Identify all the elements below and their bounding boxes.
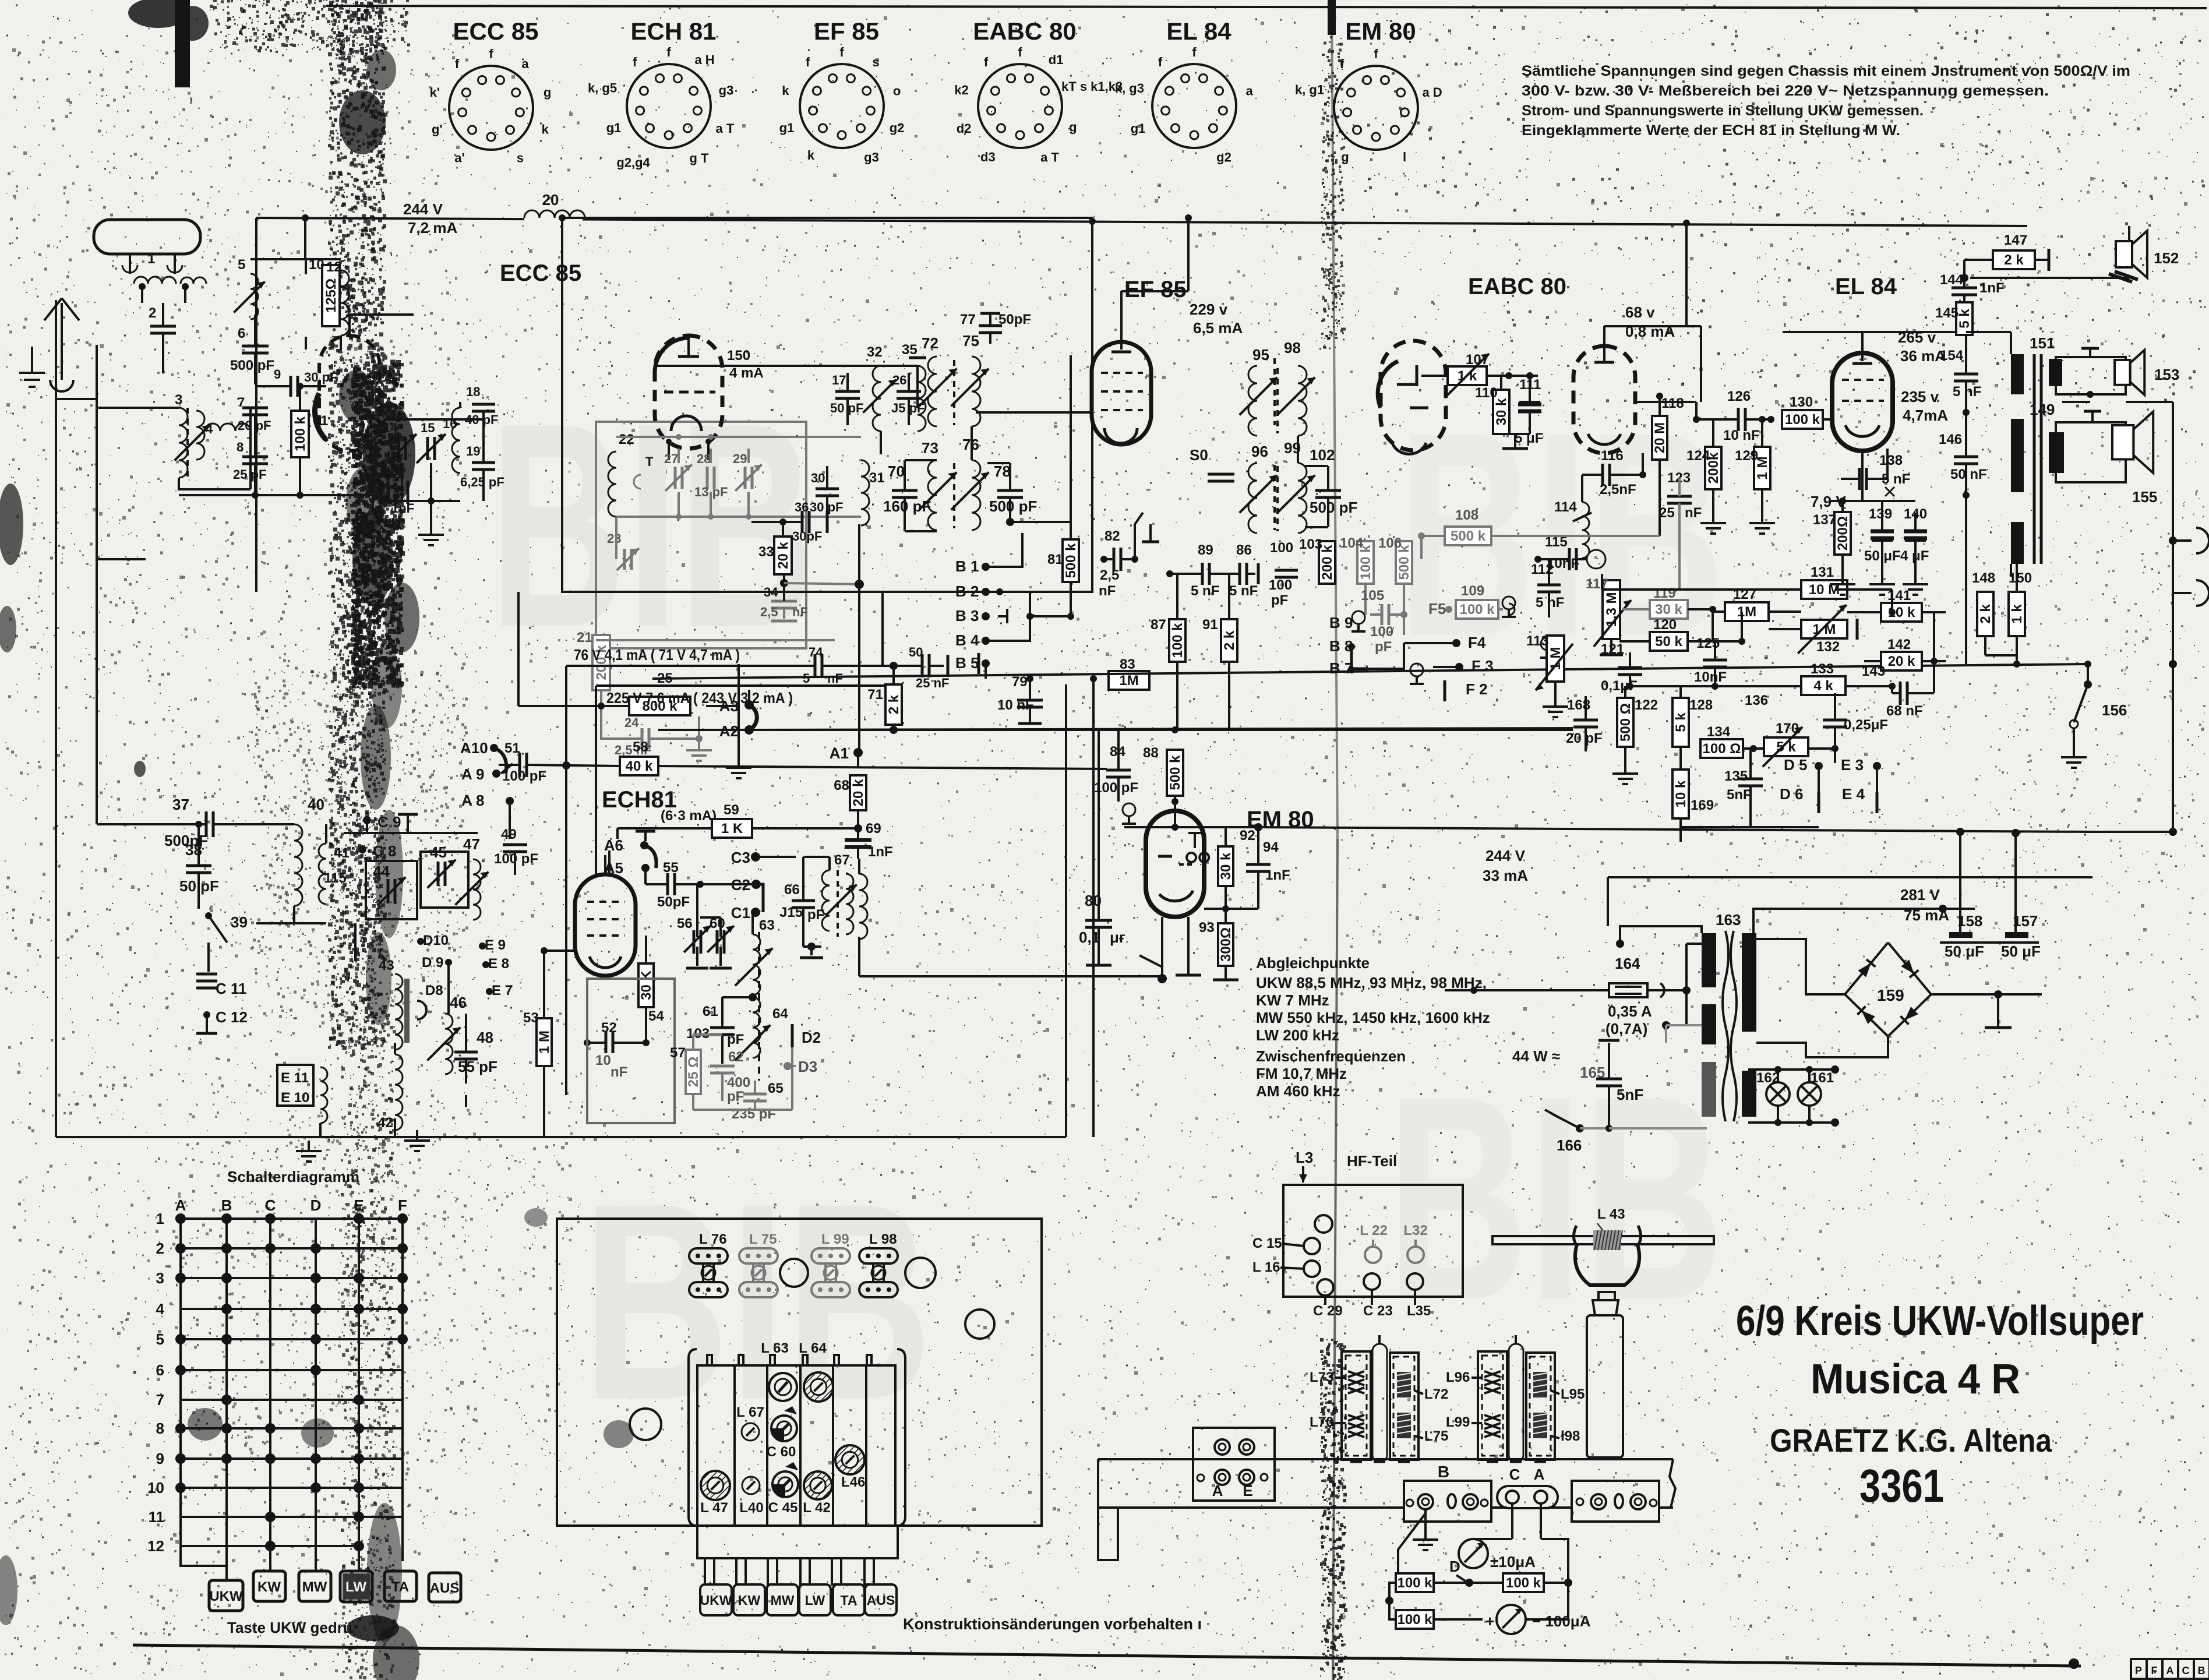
- svg-text:g: g: [1341, 150, 1349, 164]
- svg-text:BIB: BIB: [1386, 1035, 1724, 1361]
- capacitor 18 40pF: [472, 403, 495, 406]
- svg-text:37: 37: [172, 796, 189, 813]
- svg-text:f: f: [1018, 45, 1022, 59]
- svg-text:E: E: [1243, 1482, 1252, 1499]
- svg-text:169: 169: [1691, 797, 1714, 813]
- svg-text:o: o: [893, 84, 901, 98]
- trimmer C60: [771, 1428, 784, 1441]
- svg-text:36 mA: 36 mA: [1900, 347, 1946, 365]
- svg-text:g1: g1: [1131, 121, 1146, 136]
- svg-text:L96: L96: [1446, 1370, 1470, 1385]
- resistor 142 20k: [1881, 652, 1922, 670]
- svg-text:3: 3: [175, 392, 182, 408]
- wire 131 junction: [1601, 574, 1603, 590]
- stage box ECC85: [562, 218, 1092, 592]
- resistor 81 500k: [1063, 539, 1079, 582]
- trimmer L42: [804, 1471, 832, 1499]
- svg-text:121: 121: [1601, 641, 1624, 657]
- svg-text:25 pF: 25 pF: [233, 467, 266, 482]
- svg-text:g T: g T: [690, 151, 710, 165]
- svg-text:A 9: A 9: [461, 765, 485, 783]
- svg-text:12: 12: [147, 1537, 164, 1555]
- wire plate 150: [657, 365, 918, 367]
- svg-text:− 100μA: − 100μA: [1532, 1612, 1591, 1630]
- coil can L73/L72: [1342, 1351, 1371, 1460]
- svg-text:C: C: [1509, 1466, 1520, 1483]
- svg-text:B 3: B 3: [955, 607, 979, 624]
- svg-text:2,5: 2,5: [760, 605, 778, 619]
- switch 166: [1576, 1124, 1584, 1132]
- svg-text:49: 49: [501, 827, 517, 842]
- svg-text:122: 122: [1635, 697, 1658, 713]
- svg-text:150: 150: [2009, 570, 2032, 586]
- capacitor 65 235pF: [743, 1093, 767, 1096]
- box 45: [421, 852, 468, 908]
- svg-text:L75: L75: [1424, 1428, 1448, 1444]
- svg-text:C: C: [2182, 1665, 2190, 1677]
- svg-text:18: 18: [466, 384, 480, 399]
- svg-text:39: 39: [231, 913, 248, 931]
- svg-text:500 pF: 500 pF: [989, 497, 1037, 515]
- resistor 134 100ohm: [1700, 739, 1743, 758]
- tube socket EF 85: [800, 64, 884, 148]
- svg-text:FM 10,7 MHz: FM 10,7 MHz: [1256, 1065, 1347, 1082]
- scan blob top left: [175, 0, 190, 87]
- svg-text:F 2: F 2: [1466, 680, 1488, 698]
- svg-text:5 k: 5 k: [1957, 309, 1972, 329]
- svg-text:f: f: [1158, 55, 1163, 69]
- variable cap 15: [426, 437, 429, 460]
- svg-text:E 7: E 7: [492, 983, 513, 998]
- svg-text:33 mA: 33 mA: [1483, 867, 1528, 884]
- capacitor 17 50pF: [835, 390, 860, 393]
- wire 149 sec: [2010, 564, 2012, 577]
- scan streak mid2: [361, 705, 391, 810]
- switch grid junction dots: [175, 1213, 186, 1224]
- capacitor 34 2.5nF: [780, 579, 788, 587]
- svg-text:f: f: [839, 45, 844, 59]
- svg-text:10 nF: 10 nF: [1723, 428, 1760, 443]
- svg-text:P: P: [2135, 1665, 2142, 1677]
- svg-text:F 3: F 3: [1472, 657, 1494, 675]
- wire A2 bus: [755, 728, 1573, 730]
- capacitor 7 20pF: [242, 407, 268, 410]
- svg-text:C: C: [265, 1197, 276, 1214]
- svg-text:159: 159: [1877, 986, 1904, 1004]
- svg-text:100 k: 100 k: [292, 416, 308, 451]
- button AUS: [429, 1573, 461, 1602]
- ferrite antenna 1: [94, 220, 200, 254]
- svg-text:89: 89: [1198, 542, 1213, 558]
- svg-text:g3: g3: [864, 150, 879, 164]
- svg-text:1 M: 1 M: [537, 1030, 552, 1054]
- tube socket ECC 85: [449, 66, 533, 150]
- svg-text:131: 131: [1811, 564, 1834, 580]
- box ECH81 cathode: [587, 979, 675, 1123]
- wire block mesh: [394, 1043, 396, 1054]
- svg-text:TA: TA: [841, 1593, 858, 1608]
- svg-text:S0: S0: [1190, 446, 1208, 464]
- svg-text:136: 136: [1745, 693, 1768, 708]
- box 44: [366, 861, 417, 919]
- svg-text:6: 6: [156, 1361, 164, 1379]
- svg-text:nF: nF: [827, 671, 843, 686]
- keyboard inner frame: [697, 1365, 895, 1526]
- svg-text:f: f: [1192, 45, 1197, 59]
- svg-text:C3: C3: [731, 849, 750, 866]
- svg-text:50 μF: 50 μF: [1945, 943, 1984, 960]
- svg-text:8: 8: [237, 440, 244, 454]
- svg-text:55 pF: 55 pF: [458, 1058, 497, 1075]
- wire 34 to A-column: [784, 583, 859, 584]
- svg-text:f: f: [984, 55, 989, 69]
- svg-text:50pF: 50pF: [657, 894, 690, 910]
- resistor 53 1M: [537, 1018, 552, 1066]
- svg-text:100 pF: 100 pF: [1094, 780, 1138, 796]
- terminal C29c: [1317, 1279, 1333, 1296]
- wire left drop from rail: [255, 218, 257, 592]
- jack 115b: [1502, 597, 1515, 609]
- wire top rail 244V: [256, 218, 2027, 226]
- svg-text:D: D: [1449, 1558, 1460, 1575]
- meter +-10uA: [1459, 1539, 1488, 1568]
- svg-text:10 k: 10 k: [1673, 780, 1689, 807]
- svg-text:244 V: 244 V: [403, 200, 443, 218]
- bus 244V 33mA: [1254, 823, 1262, 831]
- svg-text:13: 13: [382, 461, 396, 476]
- capacitor 24 2.5nF grey: [641, 728, 644, 749]
- HF-Teil box: [1283, 1185, 1463, 1297]
- trimmer C45: [772, 1484, 785, 1497]
- transformer 163 secondary bars: [1742, 933, 1756, 1032]
- svg-text:A10: A10: [460, 739, 488, 757]
- svg-text:+: +: [1485, 1612, 1494, 1630]
- svg-text:T: T: [645, 454, 654, 469]
- capacitor 8 25pF: [242, 456, 268, 458]
- wire left border vertical: [55, 399, 57, 1137]
- svg-text:F4: F4: [1468, 634, 1486, 651]
- antenna symbol: [61, 303, 63, 380]
- svg-text:27: 27: [664, 451, 678, 466]
- svg-text:l: l: [1403, 150, 1406, 164]
- svg-text:A: A: [1534, 1466, 1545, 1483]
- svg-text:67: 67: [834, 852, 850, 868]
- resistor 118 20M: [1652, 416, 1667, 460]
- long bus y1952: [56, 1136, 1066, 1138]
- svg-text:L99: L99: [1446, 1414, 1470, 1430]
- wire osc out: [601, 705, 629, 707]
- svg-text:2,5nF: 2,5nF: [1600, 482, 1636, 497]
- svg-text:100: 100: [1370, 624, 1393, 640]
- wire A-column verticals: [858, 524, 860, 753]
- svg-text:100 pF: 100 pF: [502, 768, 546, 784]
- svg-text:s: s: [872, 55, 879, 69]
- svg-text:nF: nF: [1099, 583, 1116, 599]
- resistor 88 500k: [1167, 750, 1183, 796]
- svg-text:69: 69: [866, 821, 881, 837]
- svg-text:50 nF: 50 nF: [1950, 467, 1987, 482]
- resistor 58 40k: [620, 757, 658, 775]
- svg-text:A 8: A 8: [461, 792, 485, 809]
- wire line2 y1177: [596, 684, 894, 687]
- svg-text:7: 7: [156, 1391, 164, 1409]
- chassis plate outline: [557, 1219, 1042, 1526]
- svg-text:C 15: C 15: [1252, 1236, 1282, 1251]
- svg-text:EF 85: EF 85: [814, 17, 879, 45]
- svg-text:72: 72: [922, 334, 938, 352]
- svg-text:17: 17: [832, 373, 846, 387]
- svg-text:LW: LW: [345, 1579, 366, 1595]
- svg-text:30: 30: [811, 471, 825, 485]
- svg-text:42: 42: [377, 1115, 393, 1131]
- svg-text:B: B: [1438, 1463, 1449, 1481]
- wire bus drops: [1065, 684, 1067, 1137]
- svg-text:75: 75: [962, 332, 979, 350]
- svg-text:9: 9: [274, 367, 281, 382]
- svg-text:6: 6: [238, 326, 245, 341]
- svg-text:E 8: E 8: [488, 956, 509, 972]
- svg-text:MW: MW: [771, 1593, 795, 1608]
- wire meter net: [1398, 1513, 1425, 1580]
- svg-text:98: 98: [1284, 339, 1301, 357]
- svg-text:100 k: 100 k: [1397, 1612, 1432, 1628]
- svg-text:UKW: UKW: [209, 1589, 243, 1604]
- svg-text:B 5: B 5: [955, 654, 979, 672]
- svg-text:k, g1: k, g1: [1295, 82, 1324, 97]
- svg-text:96: 96: [1251, 443, 1268, 460]
- svg-text:24: 24: [624, 715, 639, 730]
- svg-text:B 4: B 4: [955, 631, 979, 649]
- svg-text:5: 5: [803, 671, 810, 686]
- svg-text:f: f: [489, 47, 493, 61]
- svg-text:s: s: [517, 151, 524, 165]
- svg-text:91: 91: [1202, 617, 1218, 633]
- svg-text:B 9: B 9: [1329, 614, 1353, 631]
- svg-text:ł98: ł98: [1561, 1428, 1580, 1444]
- chassis bar left leg: [1098, 1508, 1118, 1560]
- svg-text:54: 54: [648, 1008, 664, 1024]
- speaker 152: [2128, 226, 2130, 250]
- svg-text:87: 87: [1151, 617, 1166, 633]
- svg-text:154: 154: [1940, 348, 1964, 363]
- svg-text:8: 8: [156, 1420, 164, 1437]
- svg-text:a': a': [454, 151, 464, 165]
- wire ecc85 t1 plate: [348, 315, 351, 336]
- resistor 129 1M: [1754, 447, 1770, 489]
- svg-text:D 6: D 6: [1780, 785, 1803, 803]
- resistor 131 10M: [1801, 580, 1847, 599]
- button UKW: [209, 1580, 243, 1611]
- svg-text:116: 116: [1601, 448, 1624, 464]
- svg-text:31: 31: [869, 470, 885, 486]
- page border top: [326, 6, 2207, 8]
- transformer 163 primary bars: [1702, 933, 1716, 987]
- wire 144 to speaker152: [1970, 277, 2129, 279]
- svg-text:4 mA: 4 mA: [729, 365, 764, 381]
- svg-text:B: B: [221, 1197, 232, 1214]
- svg-text:pF: pF: [727, 1032, 744, 1047]
- resistor 104 100k grey: [1357, 541, 1374, 584]
- svg-text:B: B: [2198, 1665, 2206, 1677]
- svg-text:5nF: 5nF: [1727, 787, 1752, 803]
- terminals C9 C8: [363, 816, 371, 824]
- tube ECH81: [575, 874, 636, 976]
- tube EABC80 triode: [1573, 346, 1635, 453]
- tube EABC80 diodes: [1381, 341, 1446, 450]
- coil antenna input: [134, 277, 176, 284]
- bottom right ruler boxes: [2131, 1659, 2147, 1679]
- capacitor 28 13pF: [706, 467, 709, 489]
- svg-text:82: 82: [1104, 528, 1120, 544]
- svg-text:163: 163: [1716, 911, 1741, 929]
- variable cap 29: [744, 467, 747, 489]
- capacitor 19 6.25pF: [472, 461, 495, 464]
- long bus y1251: [658, 729, 1573, 731]
- wire B5 cap79: [984, 663, 987, 679]
- resistor 169 10k: [1672, 770, 1689, 818]
- resistor 103 200k: [1319, 541, 1335, 584]
- svg-text:g: g: [544, 85, 551, 100]
- resistor 68 20k: [850, 775, 866, 810]
- svg-text:a D: a D: [1422, 85, 1442, 100]
- svg-text:KW: KW: [257, 1579, 281, 1595]
- svg-text:145: 145: [1935, 305, 1959, 321]
- svg-text:k: k: [542, 122, 549, 136]
- svg-text:L 63: L 63: [761, 1340, 789, 1356]
- svg-text:a: a: [521, 57, 529, 71]
- svg-text:LW 200 kHz: LW 200 kHz: [1256, 1026, 1339, 1044]
- svg-text:C2: C2: [731, 876, 750, 894]
- svg-text:20 k: 20 k: [1888, 654, 1915, 669]
- wire speaker net: [2062, 401, 2090, 403]
- svg-text:2 k: 2 k: [2004, 252, 2024, 268]
- antenna mast cylinder: [1587, 1315, 1623, 1457]
- wire 66-67 bottom node: [803, 945, 821, 948]
- svg-text:21: 21: [577, 630, 592, 645]
- button MW: [299, 1571, 331, 1601]
- page border bottom: [133, 1645, 2081, 1666]
- svg-text:D 9: D 9: [422, 955, 443, 970]
- resistor 122 500ohm: [1617, 698, 1633, 747]
- svg-text:28: 28: [697, 451, 711, 466]
- svg-text:500 k: 500 k: [1451, 528, 1486, 544]
- svg-text:TA: TA: [391, 1579, 409, 1595]
- svg-text:200Ω: 200Ω: [1835, 516, 1851, 550]
- L43 pulleys: [1573, 1226, 1578, 1247]
- button LW: [340, 1571, 372, 1602]
- wire box bottom: [562, 591, 1092, 593]
- wire 118 to 108: [1658, 460, 1661, 536]
- svg-text:100 k: 100 k: [1170, 623, 1185, 658]
- wire el84 cathode: [1861, 451, 1864, 501]
- svg-text:Eingeklammerte Werte der EC: Eingeklammerte Werte der ECH 81 in Stell…: [1522, 122, 1900, 139]
- wire left border to 37: [96, 345, 98, 824]
- resistor 130 100k: [1782, 410, 1823, 429]
- svg-text:1nF: 1nF: [1265, 867, 1290, 883]
- svg-text:83: 83: [1120, 657, 1135, 672]
- svg-text:Zwischenfrequenzen: Zwischenfrequenzen: [1256, 1047, 1406, 1065]
- svg-text:L 64: L 64: [799, 1340, 827, 1356]
- output transformer 149 bars: [2011, 419, 2024, 492]
- resistor 91 2k: [1221, 619, 1237, 662]
- svg-text:133: 133: [1811, 661, 1834, 677]
- resistor 110 30k: [1493, 390, 1509, 434]
- svg-text:5: 5: [238, 257, 245, 273]
- svg-text:66: 66: [784, 882, 800, 898]
- svg-text:L32: L32: [1403, 1223, 1427, 1238]
- svg-text:L70: L70: [1310, 1414, 1333, 1430]
- svg-text:1nF: 1nF: [1979, 280, 2005, 296]
- chassis bar side view: [1098, 1458, 1673, 1460]
- svg-text:40: 40: [308, 796, 324, 813]
- smudge near grid: [188, 1408, 223, 1441]
- terminal D3: [784, 1062, 792, 1070]
- svg-text:40 k: 40 k: [626, 758, 653, 774]
- svg-text:55: 55: [663, 860, 679, 876]
- svg-text:100: 100: [1270, 540, 1293, 556]
- wire IF transformer cores: [1273, 358, 1276, 425]
- svg-text:pF: pF: [727, 1089, 744, 1104]
- keyboard bottom block: [697, 1526, 898, 1558]
- earth symbol: [31, 347, 33, 373]
- svg-text:100 k: 100 k: [1459, 602, 1495, 617]
- svg-text:114: 114: [1554, 499, 1577, 515]
- svg-text:10 nF: 10 nF: [997, 697, 1034, 713]
- svg-text:L3: L3: [1296, 1149, 1313, 1166]
- svg-text:155: 155: [2132, 488, 2157, 506]
- svg-text:E 10: E 10: [281, 1090, 309, 1106]
- keyboard left rail: [689, 1349, 697, 1526]
- svg-text:g3: g3: [719, 83, 734, 98]
- svg-text:2 k: 2 k: [1978, 604, 1993, 624]
- svg-text:5 nF: 5 nF: [1191, 583, 1219, 599]
- L43 bracket fork: [1575, 1244, 1639, 1285]
- keyboard top pins: [707, 1355, 712, 1365]
- svg-text:19: 19: [466, 444, 480, 458]
- svg-text:3361: 3361: [1859, 1460, 1944, 1512]
- terminals E10 E11 box: [277, 1065, 313, 1106]
- wire 65 bottom: [692, 1094, 694, 1110]
- svg-text:68 nF: 68 nF: [1886, 703, 1923, 719]
- svg-text:25: 25: [1659, 505, 1675, 521]
- svg-text:225 V 7,6 mA ( 243 V: 225 V 7,6 mA ( 243 V 3,2 mA ): [606, 689, 793, 707]
- svg-text:7: 7: [238, 395, 245, 410]
- svg-text:33: 33: [758, 544, 774, 560]
- svg-text:D10: D10: [423, 933, 449, 948]
- svg-text:70: 70: [888, 463, 905, 480]
- resistor 133 4k: [1801, 676, 1845, 695]
- left margin blobs: [0, 483, 23, 565]
- svg-text:106: 106: [1378, 535, 1402, 551]
- hole circle top right: [965, 1310, 994, 1339]
- svg-text:108: 108: [1455, 507, 1478, 523]
- choke 20: [524, 214, 583, 221]
- svg-text:g': g': [432, 122, 443, 136]
- svg-text:Taste UKW gedrü: Taste UKW gedrü: [227, 1619, 352, 1636]
- svg-text:12: 12: [326, 259, 342, 275]
- svg-text:ECH 81: ECH 81: [630, 17, 716, 45]
- svg-text:4 k: 4 k: [1813, 678, 1833, 694]
- svg-text:134: 134: [1707, 724, 1731, 740]
- svg-text:GRAETZ K.G. Altena: GRAETZ K.G. Altena: [1770, 1422, 2052, 1459]
- svg-text:11: 11: [149, 1508, 165, 1526]
- svg-text:100 Ω: 100 Ω: [1703, 741, 1741, 757]
- svg-text:78: 78: [994, 463, 1011, 480]
- svg-text:1 k: 1 k: [2009, 604, 2025, 624]
- svg-text:(6·3 mA): (6·3 mA): [661, 808, 717, 824]
- wire antenna loop: [56, 300, 97, 399]
- hole circle 2: [905, 1258, 936, 1288]
